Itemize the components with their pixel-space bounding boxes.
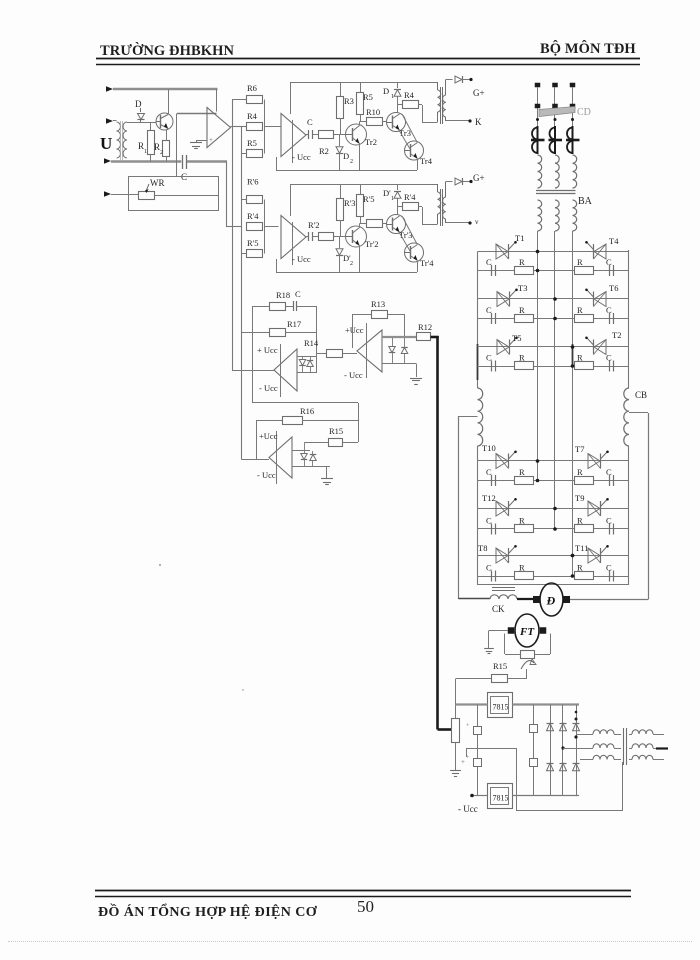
- switch CD contact 2: [552, 104, 558, 109]
- svg-text:C: C: [486, 516, 492, 526]
- node input arrow mid: [106, 118, 113, 124]
- svg-text:FT: FT: [519, 626, 535, 638]
- resistor R15 mid: [305, 426, 358, 447]
- wire FT left: [489, 631, 508, 649]
- current transformer CT3: [566, 126, 580, 154]
- thyristor T3: [497, 292, 509, 307]
- resistor R'2: [308, 220, 334, 241]
- svg-text:WR: WR: [150, 178, 165, 188]
- svg-text:D: D: [343, 151, 349, 161]
- svg-text:CK: CK: [492, 604, 505, 614]
- transformer BA secondary winding 1: [538, 200, 542, 231]
- svg-text:R3: R3: [344, 96, 354, 106]
- transistor Tr'3: [387, 207, 413, 240]
- wire channel' top rail: [290, 184, 438, 186]
- svg-text:R: R: [577, 305, 583, 315]
- wire K output: [446, 119, 472, 122]
- page footer rule: [95, 891, 631, 897]
- resistor R1: [138, 123, 155, 162]
- svg-text:T8: T8: [478, 543, 487, 553]
- capacitor C snubber left y576: [486, 563, 496, 582]
- resistor R snubber left y529: [515, 516, 534, 533]
- wire R15 left: [456, 679, 492, 719]
- svg-text:Tr4: Tr4: [420, 156, 433, 166]
- svg-text:R'4: R'4: [404, 192, 416, 202]
- op-amp U5 current reg: [344, 323, 382, 380]
- resistor R5: [247, 138, 263, 158]
- wire base line ': [334, 236, 345, 238]
- op-amp U4 reg1: [257, 344, 297, 397]
- wire right bus lower: [628, 446, 630, 585]
- diode rectifier column 1: [547, 705, 554, 796]
- svg-text:D: D: [383, 86, 389, 96]
- node junction phase3 low: [571, 554, 575, 558]
- wire snubber row y529: [478, 528, 630, 530]
- diode pair reg1: [297, 357, 316, 374]
- svg-text:C: C: [606, 353, 612, 363]
- transformer BA secondary winding 2: [555, 200, 559, 231]
- diode output DG: [446, 76, 473, 83]
- ground Rb: [450, 770, 461, 772]
- svg-text:R: R: [519, 353, 525, 363]
- node phase terminal 3: [570, 83, 576, 88]
- thyristor T9: [588, 501, 600, 516]
- diode D'1: [383, 184, 401, 207]
- transistor Tr2: [346, 122, 377, 171]
- capacitor C reg1: [286, 289, 317, 311]
- svg-text:T4: T4: [609, 236, 619, 246]
- svg-text:R: R: [577, 257, 583, 267]
- svg-text:G+: G+: [473, 88, 485, 98]
- wire reg1 right vert: [316, 306, 318, 373]
- wire U1 output: [231, 126, 247, 128]
- svg-text:T12: T12: [482, 493, 496, 503]
- regulator 1 feedback R18: [252, 290, 290, 311]
- current transformer CT1: [531, 126, 545, 154]
- wire phase below CD 3: [572, 108, 574, 126]
- svg-text:+: +: [209, 136, 213, 144]
- pulse transformer BAX1: [438, 80, 446, 125]
- resistor R5b: [357, 82, 373, 122]
- svg-text:C: C: [606, 305, 612, 315]
- wire bus B x241: [241, 127, 243, 460]
- svg-text:R: R: [577, 467, 583, 477]
- wire collector drop: [176, 114, 178, 177]
- resistor R'4b: [398, 192, 419, 211]
- choke CK: [490, 588, 517, 615]
- wire bus A x232: [232, 100, 234, 371]
- resistor R snubber right y480.5: [575, 467, 594, 485]
- wire mid tap loop: [466, 748, 623, 811]
- wire phase drop 3: [572, 87, 574, 104]
- svg-text:R4: R4: [247, 111, 258, 121]
- choke left bus: [478, 388, 483, 446]
- wire snubber row y576: [478, 576, 630, 578]
- svg-text:R14: R14: [304, 338, 319, 348]
- tacho FT: [515, 614, 539, 647]
- wire CK to motor: [517, 598, 534, 600]
- transistor Tr'2: [346, 224, 379, 273]
- wire phase bus 2: [554, 231, 556, 529]
- wire stage base line: [127, 122, 156, 124]
- wire row T5/T2: [478, 346, 630, 348]
- thyristor T7: [588, 454, 600, 469]
- wire phase below CD 2: [554, 108, 556, 126]
- resistor R12: [417, 322, 433, 341]
- svg-text:C: C: [486, 353, 492, 363]
- ground U5: [410, 364, 422, 385]
- resistor R'3: [337, 184, 356, 237]
- wire C to bus corner: [187, 160, 227, 162]
- svg-text:R5: R5: [247, 138, 257, 148]
- svg-text:T6: T6: [609, 283, 618, 293]
- diode D1: [383, 82, 401, 105]
- resistor R snubber right y529: [575, 516, 594, 533]
- resistor R'6: [247, 177, 263, 204]
- wire ladder right bus: [264, 100, 266, 154]
- thyristor T5: [497, 340, 509, 355]
- wire x358 vert: [358, 403, 360, 442]
- svg-text:R: R: [577, 516, 583, 526]
- wire channel bottom rail: [276, 170, 417, 172]
- wire snubber row y270.5: [478, 270, 630, 272]
- wire to op-amp input: [177, 113, 217, 115]
- resistor R10: [360, 107, 388, 126]
- diode D: [135, 99, 145, 123]
- resistor R'4: [247, 211, 263, 231]
- capacitor C snubber right y529: [606, 516, 614, 535]
- svg-text:+Ucc: +Ucc: [259, 431, 278, 441]
- wire +15 rail: [456, 703, 580, 705]
- motor D: [540, 583, 563, 616]
- node input arrow bottom: [104, 158, 111, 164]
- svg-text:+Ucc: +Ucc: [345, 325, 364, 335]
- thyristor T4: [594, 244, 606, 259]
- resistor R13: [353, 299, 406, 348]
- capacitor C' coupling: [306, 232, 319, 241]
- svg-text:Tr2: Tr2: [365, 137, 377, 147]
- wire reg1 output row: [232, 370, 274, 372]
- svg-text:U: U: [100, 134, 112, 153]
- node junction 555,299: [553, 297, 557, 301]
- capacitor C snubber right y366: [606, 353, 614, 372]
- resistor R snubber right y318.5: [575, 305, 594, 323]
- wire primary loop: [419, 105, 438, 123]
- wire left bus lower: [477, 446, 479, 585]
- svg-text:R: R: [577, 353, 583, 363]
- svg-text:CD: CD: [577, 107, 591, 118]
- svg-text:- Ucc: - Ucc: [344, 370, 363, 380]
- svg-text:D: D: [135, 99, 142, 109]
- node junction 537.5,480.5: [536, 479, 540, 483]
- wire ladder stubs: [242, 153, 247, 155]
- transformer BA secondary winding 3: [573, 200, 577, 231]
- wire channel' bottom left: [276, 259, 278, 272]
- wire bottom rail with C: [111, 160, 181, 162]
- node junction 555,318.5: [553, 317, 557, 321]
- svg-text:C: C: [606, 516, 612, 526]
- wire -15 rail: [470, 794, 579, 798]
- capacitor C snubber right y270.5: [606, 257, 614, 276]
- regulator 7815 lower: [488, 784, 513, 809]
- node junction 572.5,576: [571, 574, 575, 578]
- diode rectifier column 2: [560, 705, 567, 796]
- switch CD contact 1: [535, 104, 541, 109]
- transformer BA primary winding 2: [555, 155, 559, 188]
- wire reg1 left vert: [252, 306, 254, 403]
- svg-text:R'5: R'5: [363, 194, 374, 204]
- resistor R snubber left y366: [515, 353, 534, 370]
- svg-text:R'4: R'4: [247, 211, 259, 221]
- svg-text:- Ucc: - Ucc: [292, 254, 311, 264]
- transformer BA primary winding 1: [538, 155, 542, 188]
- diode D2: [336, 135, 353, 171]
- node diode junctions: [561, 746, 564, 749]
- regulator 7815 upper: [488, 693, 513, 718]
- node junction 555,508.5: [553, 507, 557, 511]
- capacitor C snubber right y480.5: [606, 467, 614, 486]
- potentiometer feedback: [521, 651, 537, 670]
- svg-text:R4: R4: [404, 90, 415, 100]
- wire WR to box edge: [155, 195, 219, 197]
- svg-text:C: C: [486, 305, 492, 315]
- diode rectifier column 3: [573, 705, 580, 796]
- wire outer right jog: [629, 412, 648, 414]
- resistor R snubber left y318.5: [515, 305, 534, 323]
- wire pot to R15: [507, 669, 528, 679]
- wire to R4 channel 2: [227, 226, 242, 228]
- transistor Tr'4: [399, 216, 434, 272]
- wire phase3 bold segment: [572, 344, 574, 367]
- svg-text:R: R: [519, 257, 525, 267]
- resistor R snubber left y576: [515, 563, 534, 580]
- wire channel' left edge: [290, 184, 292, 216]
- switch CD contact 3: [570, 104, 576, 109]
- svg-text:R15: R15: [493, 661, 507, 671]
- capacitor C snubber left y318.5: [486, 305, 496, 324]
- wire channel bottom left: [276, 157, 278, 170]
- svg-text:+ Ucc: + Ucc: [257, 345, 278, 355]
- svg-text:R15: R15: [329, 426, 343, 436]
- resistor R4: [247, 111, 263, 131]
- capacitor C snubber left y270.5: [486, 257, 496, 276]
- resistor R6: [247, 83, 263, 104]
- capacitor bank left: [466, 705, 482, 796]
- diode D'2: [336, 237, 353, 273]
- svg-text:R13: R13: [371, 299, 385, 309]
- wire bus A top corner: [232, 99, 247, 101]
- svg-text:R: R: [519, 467, 525, 477]
- node input arrow WR: [104, 191, 111, 197]
- wire phase below CD 1: [537, 108, 539, 126]
- svg-text:R6: R6: [247, 83, 257, 93]
- capacitor C snubber right y318.5: [606, 305, 614, 324]
- resistor R16: [257, 406, 358, 425]
- node junction 572.5,347: [571, 345, 575, 349]
- wire WR input: [111, 194, 139, 196]
- svg-text:R'5: R'5: [247, 238, 258, 248]
- svg-text:7815: 7815: [493, 703, 509, 712]
- capacitor C snubber left y529: [486, 516, 496, 535]
- wire channel' bottom rail: [276, 272, 417, 274]
- svg-text:CB: CB: [635, 390, 647, 400]
- transformer supply core: [624, 728, 627, 765]
- ground U1: [190, 140, 207, 149]
- wire to transformer: [113, 120, 117, 122]
- svg-text:1: 1: [391, 94, 394, 100]
- op-amp U2: [281, 114, 311, 164]
- op-amp U3: [281, 216, 311, 266]
- transistor Tr3: [387, 105, 411, 138]
- svg-text:T3: T3: [518, 283, 527, 293]
- wire outer right vert: [648, 413, 650, 600]
- node input arrow top: [106, 86, 113, 92]
- choke CB right bus: [624, 388, 629, 446]
- svg-text:BA: BA: [578, 196, 593, 207]
- wire R12 to control bus dark: [431, 336, 452, 730]
- svg-text:R: R: [519, 305, 525, 315]
- ground FT: [484, 648, 494, 650]
- page header rule: [96, 59, 640, 65]
- wire FT pot loop: [505, 634, 551, 655]
- wire primary loop ': [419, 207, 438, 225]
- resistor R14: [304, 338, 357, 358]
- svg-text:R10: R10: [366, 107, 380, 117]
- wire top rail: [113, 88, 218, 91]
- resistor R17: [242, 319, 317, 337]
- thyristor T2: [594, 340, 606, 355]
- wire base line: [334, 134, 345, 136]
- resistor R4b: [398, 90, 419, 109]
- wire reg1 to R15 row: [252, 402, 358, 404]
- transformer BA primary winding 3: [573, 155, 577, 188]
- svg-text:1: 1: [391, 196, 394, 202]
- node stray marks: [159, 564, 244, 691]
- wire reg2 output row: [242, 459, 270, 461]
- capacitor C snubber right y576: [606, 563, 614, 582]
- svg-text:C: C: [606, 467, 612, 477]
- diode pair U5: [382, 337, 417, 364]
- node phase terminal 2: [552, 83, 558, 88]
- pulse transformer BAX2: [438, 182, 446, 227]
- svg-text:1: 1: [144, 149, 147, 155]
- wire motor to right bus: [570, 599, 648, 601]
- svg-text:R18: R18: [276, 290, 290, 300]
- svg-text:- Ucc: - Ucc: [292, 152, 311, 162]
- svg-text:C: C: [606, 563, 612, 573]
- svg-text:G+: G+: [473, 173, 485, 183]
- svg-text:D': D': [383, 188, 391, 198]
- wire K output ': [446, 221, 472, 224]
- op-amp U6 speed reg: [257, 431, 292, 484]
- node junction 537.5,461: [536, 459, 540, 463]
- wire left bus bold segment: [477, 344, 479, 380]
- transistor Q1: [156, 89, 173, 140]
- wire lower bridge bottom: [478, 584, 630, 586]
- wire snubber row y366: [478, 366, 630, 368]
- svg-text:7815: 7815: [493, 794, 509, 803]
- wire phase bus 3: [572, 231, 574, 576]
- transformer supply right windings: [629, 730, 668, 760]
- svg-text:T2: T2: [612, 330, 621, 340]
- diode pair U6: [292, 442, 330, 467]
- transformer BA core: [536, 191, 576, 194]
- svg-text:R'2: R'2: [308, 220, 319, 230]
- wire left bus upper: [477, 252, 479, 389]
- wire channel left edge: [290, 82, 292, 114]
- node phase terminal 1: [535, 83, 541, 88]
- wire snubber row y318.5: [478, 318, 630, 320]
- svg-text:Đ: Đ: [546, 594, 556, 608]
- svg-text:+: +: [466, 723, 470, 729]
- node junction 572.5,555.5: [571, 554, 575, 558]
- svg-text:R2: R2: [319, 146, 329, 156]
- diode output D'G: [446, 178, 473, 185]
- transformer supply left windings: [563, 730, 621, 760]
- wire row T1/T4: [478, 251, 630, 253]
- svg-text:2: 2: [160, 150, 163, 156]
- block WR box: [129, 177, 219, 211]
- wire bus drop x226: [226, 162, 228, 228]
- wire right bus upper: [628, 250, 630, 388]
- resistor R15 feedback: [492, 661, 508, 683]
- wire phase drop 2: [554, 87, 556, 104]
- resistor R2: [319, 131, 334, 157]
- thyristor T8: [496, 548, 508, 563]
- svg-text:C: C: [295, 289, 301, 299]
- svg-text:R: R: [519, 563, 525, 573]
- op-amp U1: [207, 89, 231, 148]
- capacitor bank mid: [530, 705, 538, 796]
- resistor R snubber right y270.5: [575, 257, 594, 275]
- node junction 537.5,270.5: [536, 269, 540, 273]
- svg-text:- Ucc: - Ucc: [257, 470, 276, 480]
- svg-text:C: C: [486, 257, 492, 267]
- wire channel top rail: [290, 82, 438, 84]
- motor D terminals: [533, 596, 540, 603]
- potentiometer WR: [139, 178, 165, 200]
- svg-text:Tr'2: Tr'2: [365, 239, 379, 249]
- thyristor T1: [496, 244, 508, 259]
- resistor R'5b: [357, 184, 375, 224]
- wire ladder output: [265, 126, 281, 128]
- wire ladder output ': [265, 226, 279, 228]
- wire row T8/T11: [478, 555, 630, 557]
- transformer TR1 input: [117, 121, 128, 160]
- capacitor C coupling: [306, 117, 319, 139]
- switch CD bar: [539, 107, 575, 117]
- svg-text:R16: R16: [300, 406, 314, 416]
- current transformer CT2: [549, 126, 563, 154]
- resistor Rb vertical: [452, 719, 460, 771]
- wire row T12/T9: [478, 508, 630, 510]
- thyristor T12: [496, 501, 508, 516]
- capacitor C input: [181, 155, 187, 182]
- svg-text:T1: T1: [515, 233, 524, 243]
- svg-text:C: C: [606, 257, 612, 267]
- wire ladder right bus ': [264, 200, 266, 254]
- svg-text:+: +: [461, 758, 465, 766]
- wire motor loop bottom left: [459, 598, 491, 600]
- svg-text:T7: T7: [575, 444, 584, 454]
- svg-text:C: C: [307, 117, 313, 127]
- svg-text:T9: T9: [575, 493, 584, 503]
- svg-text:K: K: [475, 117, 482, 127]
- svg-text:R'6: R'6: [247, 177, 258, 187]
- resistor R snubber right y366: [575, 353, 594, 370]
- svg-text:C: C: [486, 467, 492, 477]
- wire outer left branch: [459, 416, 478, 599]
